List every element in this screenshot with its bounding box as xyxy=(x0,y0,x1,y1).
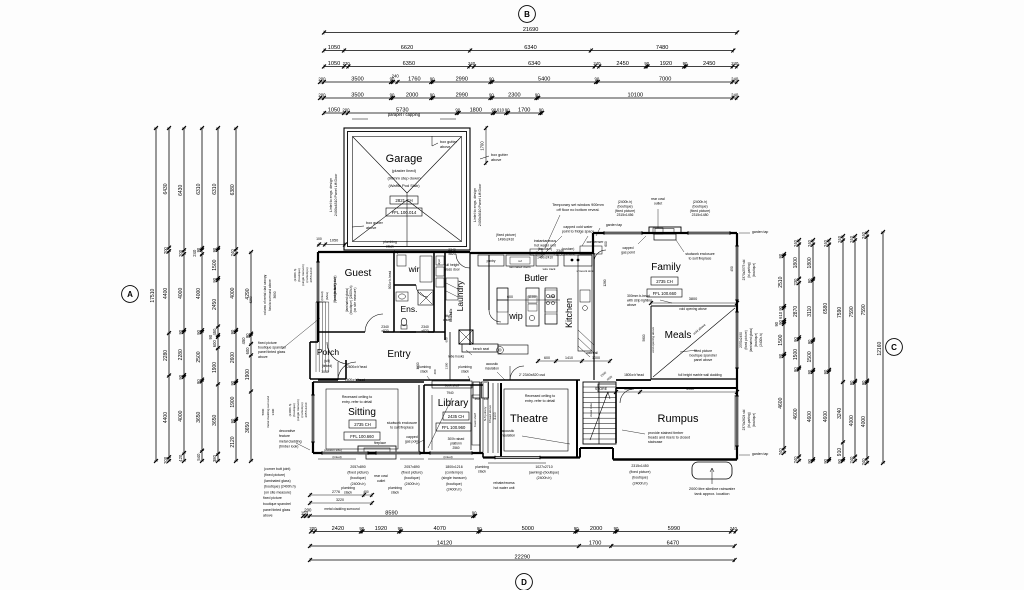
svg-text:1800: 1800 xyxy=(807,257,813,268)
svg-text:Library: Library xyxy=(438,398,469,409)
svg-text:(2400h.h): (2400h.h) xyxy=(693,200,708,204)
svg-text:2600w b'head: 2600w b'head xyxy=(345,378,365,382)
svg-text:(fixed picture): (fixed picture) xyxy=(347,471,368,475)
cooktop circles xyxy=(546,294,549,297)
svg-text:cloak robe: cloak robe xyxy=(589,403,593,417)
svg-text:fixed picture: fixed picture xyxy=(263,496,282,500)
svg-text:4000: 4000 xyxy=(196,288,202,299)
fireplace bump family xyxy=(649,227,681,234)
corridor wall xyxy=(616,379,651,381)
grid marker A xyxy=(122,286,139,303)
sitting left wall xyxy=(312,382,314,453)
garage roof line xyxy=(353,137,462,242)
svg-text:studwork enclosure: studwork enclosure xyxy=(387,421,417,425)
svg-text:1800x1216: 1800x1216 xyxy=(445,465,462,469)
dimension chain right c3 xyxy=(807,238,815,464)
svg-text:4400: 4400 xyxy=(163,288,169,299)
window xyxy=(376,452,420,455)
svg-text:(boutique): (boutique) xyxy=(617,204,632,208)
svg-text:D: D xyxy=(521,578,527,587)
svg-text:2000: 2000 xyxy=(590,526,602,532)
svg-text:2500: 2500 xyxy=(196,351,202,362)
ens vanity xyxy=(396,292,408,301)
svg-text:4600: 4600 xyxy=(823,411,829,422)
svg-text:2280: 2280 xyxy=(163,350,169,361)
svg-text:(bi-parting): (bi-parting) xyxy=(747,262,751,277)
svg-text:x820: x820 xyxy=(421,329,428,333)
svg-text:(boutique): (boutique) xyxy=(561,251,576,255)
sitting fireplace xyxy=(358,446,396,454)
svg-text:(fixed picture): (fixed picture) xyxy=(629,470,650,474)
dimension chain top tier3 xyxy=(322,61,739,69)
svg-text:7480: 7480 xyxy=(656,45,668,51)
svg-text:Theatre: Theatre xyxy=(510,413,548,425)
rumpus door xyxy=(620,389,634,403)
dimension chain right c6 xyxy=(849,234,857,463)
svg-text:boutique spandrel: boutique spandrel xyxy=(258,346,286,350)
svg-text:2000 litre slimline rainwater: 2000 litre slimline rainwater xyxy=(689,487,736,491)
svg-text:x820: x820 xyxy=(448,252,455,256)
svg-text:14120: 14120 xyxy=(437,540,453,546)
svg-text:(2400h.h): (2400h.h) xyxy=(405,482,420,486)
window xyxy=(604,232,642,235)
theatre right wall xyxy=(576,380,578,457)
svg-text:4600: 4600 xyxy=(793,408,799,419)
svg-text:6430: 6430 xyxy=(178,185,184,196)
guest door arc xyxy=(365,314,383,332)
svg-text:garden tap: garden tap xyxy=(606,223,622,227)
svg-text:4000: 4000 xyxy=(178,410,184,421)
svg-text:4400: 4400 xyxy=(163,412,169,423)
svg-text:420: 420 xyxy=(178,454,183,462)
svg-text:column of metal clad canopy: column of metal clad canopy xyxy=(263,274,267,315)
svg-text:2' 2340x820 csd: 2' 2340x820 csd xyxy=(519,373,545,377)
svg-text:6430: 6430 xyxy=(163,183,169,194)
svg-text:6620: 6620 xyxy=(401,45,413,51)
svg-text:5400: 5400 xyxy=(538,76,550,82)
dimension chain bottom tier3 xyxy=(308,540,737,548)
svg-text:Guest: Guest xyxy=(345,268,372,279)
svg-text:to suit fireplace: to suit fireplace xyxy=(390,426,414,430)
svg-text:metal cladding: metal cladding xyxy=(279,439,302,443)
kitchen right bench xyxy=(578,255,592,351)
svg-text:22290: 22290 xyxy=(515,554,531,560)
svg-text:5000: 5000 xyxy=(522,526,534,532)
dimension chain right c2 xyxy=(793,238,801,463)
svg-text:pantry: pantry xyxy=(487,259,496,263)
svg-text:garden tap: garden tap xyxy=(752,230,768,234)
svg-text:Family: Family xyxy=(651,262,680,273)
svg-text:provide stained timber: provide stained timber xyxy=(648,431,684,435)
svg-text:540: 540 xyxy=(196,453,201,461)
svg-text:b'head above: b'head above xyxy=(488,405,492,423)
svg-text:2735 CH: 2735 CH xyxy=(656,279,673,284)
svg-text:2057x890: 2057x890 xyxy=(404,465,419,469)
svg-text:rebate/recess: rebate/recess xyxy=(493,481,514,485)
library right wall xyxy=(479,382,481,453)
svg-text:Recessed ceiling to: Recessed ceiling to xyxy=(525,394,555,398)
svg-text:450: 450 xyxy=(363,490,369,494)
svg-text:(Waffle Pod Slab): (Waffle Pod Slab) xyxy=(388,183,420,188)
svg-text:treads and risers to closed: treads and risers to closed xyxy=(648,436,690,440)
svg-text:(fixed picture): (fixed picture) xyxy=(744,330,748,349)
svg-text:(tinted): (tinted) xyxy=(443,455,452,459)
svg-text:2057x890: 2057x890 xyxy=(350,465,365,469)
svg-text:600: 600 xyxy=(212,340,217,348)
svg-text:(fixed picture): (fixed picture) xyxy=(690,209,711,213)
svg-text:above: above xyxy=(263,514,273,518)
svg-text:2057x1210: 2057x1210 xyxy=(309,267,313,282)
svg-text:fireplace: fireplace xyxy=(374,441,386,445)
svg-text:100: 100 xyxy=(316,237,322,241)
svg-text:5800: 5800 xyxy=(261,408,265,415)
svg-text:void opening above: void opening above xyxy=(651,327,655,353)
theatre room xyxy=(500,383,502,457)
svg-text:450: 450 xyxy=(241,337,246,345)
hall line xyxy=(449,332,451,380)
svg-text:8590: 8590 xyxy=(385,510,397,516)
laundry cabinets xyxy=(446,278,458,300)
svg-text:4290: 4290 xyxy=(249,296,253,304)
grid marker D xyxy=(516,574,533,591)
svg-text:2400x4810 Panel Lift Door: 2400x4810 Panel Lift Door xyxy=(334,173,338,216)
dimension chain top tier2 xyxy=(322,45,735,53)
guest bottom wall xyxy=(318,331,365,333)
svg-text:(boutique): (boutique) xyxy=(632,476,648,480)
svg-text:(contempo): (contempo) xyxy=(445,471,463,475)
svg-text:(fixed picture): (fixed picture) xyxy=(264,473,285,477)
svg-text:2450: 2450 xyxy=(703,61,715,67)
porch front door arc xyxy=(327,342,349,364)
wir robe shelves xyxy=(397,255,406,266)
svg-text:(tinted): (tinted) xyxy=(320,291,324,300)
svg-text:7590: 7590 xyxy=(861,304,867,315)
svg-text:point to fridge space: point to fridge space xyxy=(562,230,594,234)
svg-text:Butler: Butler xyxy=(524,273,548,283)
svg-text:450: 450 xyxy=(212,328,217,336)
svg-text:(2400h.h): (2400h.h) xyxy=(537,476,552,480)
svg-text:4600: 4600 xyxy=(778,397,784,408)
svg-text:240: 240 xyxy=(392,73,400,78)
svg-text:2370x2575 sld: 2370x2575 sld xyxy=(742,259,746,280)
svg-text:(awning)-(boutique): (awning)-(boutique) xyxy=(529,471,559,475)
hall/meals wall xyxy=(651,378,737,380)
svg-text:1800w b'head: 1800w b'head xyxy=(624,373,644,377)
svg-text:2315x1480: 2315x1480 xyxy=(692,213,709,217)
svg-text:300mm b-head: 300mm b-head xyxy=(627,294,650,298)
dimension chain bottom 22290 xyxy=(308,554,737,562)
svg-text:7000: 7000 xyxy=(659,76,671,82)
svg-text:Meals: Meals xyxy=(665,330,692,341)
theatre doors xyxy=(510,366,524,380)
svg-text:(laminated glass): (laminated glass) xyxy=(749,328,753,352)
svg-text:1027x2710: 1027x2710 xyxy=(535,465,552,469)
sitting right wall xyxy=(423,385,425,453)
entry hall bottom wall xyxy=(318,379,338,381)
svg-text:outlet: outlet xyxy=(377,479,385,483)
dimension chain right c5 xyxy=(837,234,845,464)
svg-text:decorative: decorative xyxy=(279,429,295,433)
dim 3800 xyxy=(651,302,737,304)
svg-text:3800: 3800 xyxy=(689,297,697,301)
garage roof hip lines xyxy=(353,137,408,194)
svg-text:2735 CH: 2735 CH xyxy=(354,422,371,427)
svg-text:(boutique): (boutique) xyxy=(404,476,420,480)
svg-text:wip: wip xyxy=(508,311,523,321)
svg-text:stack: stack xyxy=(391,490,399,494)
dim 1700 right of garage xyxy=(485,128,487,163)
svg-text:(timber look): (timber look) xyxy=(279,445,298,449)
dimension chain top tier4 xyxy=(318,73,739,84)
dimension chain left c5 xyxy=(208,126,220,463)
svg-text:fixed picture: fixed picture xyxy=(694,349,712,353)
svg-text:(fixed picture): (fixed picture) xyxy=(401,471,422,475)
svg-text:(fixed picture): (fixed picture) xyxy=(615,209,636,213)
svg-text:Rumpus: Rumpus xyxy=(658,413,699,425)
svg-text:(boutique): (boutique) xyxy=(752,413,756,427)
svg-text:FFL 100.960: FFL 100.960 xyxy=(442,425,466,430)
svg-text:plumbing: plumbing xyxy=(458,365,472,369)
svg-text:(laminated glass): (laminated glass) xyxy=(264,479,291,483)
svg-text:2000: 2000 xyxy=(406,92,418,98)
svg-text:condenser: condenser xyxy=(587,240,605,244)
svg-text:3500: 3500 xyxy=(351,76,363,82)
svg-text:6580: 6580 xyxy=(823,303,829,314)
svg-text:90: 90 xyxy=(208,334,213,339)
svg-text:B: B xyxy=(524,10,530,19)
sitting recess ceiling rect xyxy=(326,389,398,449)
svg-text:full height: full height xyxy=(445,263,460,267)
svg-text:3100: 3100 xyxy=(493,412,497,420)
svg-text:STORE: STORE xyxy=(595,387,608,391)
ens shower corner xyxy=(420,292,432,304)
dimension chain left c4 xyxy=(192,126,204,463)
rumpus bottom wall xyxy=(613,458,737,460)
svg-text:3220: 3220 xyxy=(336,498,344,502)
svg-text:17510: 17510 xyxy=(150,289,156,303)
svg-text:2300: 2300 xyxy=(508,92,520,98)
svg-text:910: 910 xyxy=(837,448,843,457)
svg-text:4000: 4000 xyxy=(230,287,236,298)
rumpus top wall xyxy=(616,387,737,389)
svg-text:200: 200 xyxy=(304,507,312,512)
svg-text:2821 CH: 2821 CH xyxy=(395,198,412,203)
svg-text:(boutique) (2400h.h): (boutique) (2400h.h) xyxy=(264,485,296,489)
svg-text:3650: 3650 xyxy=(212,414,218,425)
small bottom dims xyxy=(310,494,372,496)
dimension chain left c7 xyxy=(241,250,253,463)
sill lines bottom xyxy=(318,458,356,460)
svg-text:690: 690 xyxy=(549,295,555,299)
hall walls around entry xyxy=(394,331,416,333)
svg-text:610: 610 xyxy=(497,107,505,112)
svg-text:4600: 4600 xyxy=(807,411,813,422)
pantry cabinets top row xyxy=(478,255,504,266)
svg-text:acoustic: acoustic xyxy=(486,362,498,366)
kitchen dim bottom xyxy=(538,360,610,362)
laundry chute box xyxy=(459,330,473,344)
family/meals void wall xyxy=(651,305,737,307)
dimension chain top tier5 xyxy=(318,92,739,100)
svg-text:2560: 2560 xyxy=(452,446,459,450)
dimension chain left c2 xyxy=(163,126,171,464)
svg-text:240: 240 xyxy=(192,249,197,257)
svg-text:book shelf: book shelf xyxy=(473,413,477,427)
svg-text:10100: 10100 xyxy=(628,92,644,98)
svg-text:above: above xyxy=(491,158,501,162)
kitchen bench diagonals xyxy=(578,330,594,345)
svg-text:(on site measure): (on site measure) xyxy=(353,288,357,313)
svg-text:panel above: panel above xyxy=(694,358,713,362)
ens door arc xyxy=(416,285,428,297)
window xyxy=(736,312,739,368)
svg-text:FFL 100.014: FFL 100.014 xyxy=(392,210,417,215)
wir room xyxy=(433,252,435,285)
svg-text:4000: 4000 xyxy=(861,416,867,427)
svg-text:hot water unit: hot water unit xyxy=(493,486,514,490)
svg-text:2370x2450: 2370x2450 xyxy=(739,332,743,348)
svg-text:6310: 6310 xyxy=(196,183,202,194)
svg-text:1050: 1050 xyxy=(328,107,340,113)
svg-text:1900: 1900 xyxy=(230,396,236,407)
svg-text:capped: capped xyxy=(406,435,418,439)
svg-text:90: 90 xyxy=(774,321,779,326)
svg-text:metal cladding surround: metal cladding surround xyxy=(324,507,359,511)
svg-text:bench seat: bench seat xyxy=(473,347,489,351)
svg-text:glass door: glass door xyxy=(444,268,461,272)
svg-text:1760: 1760 xyxy=(408,76,420,82)
svg-text:Laundry: Laundry xyxy=(455,280,465,311)
svg-text:1800: 1800 xyxy=(793,257,799,268)
svg-text:7940: 7940 xyxy=(446,391,453,395)
svg-text:6470: 6470 xyxy=(667,540,679,546)
svg-text:1900: 1900 xyxy=(245,369,251,380)
svg-text:(2400h.h): (2400h.h) xyxy=(447,487,462,491)
svg-text:laminated doors: laminated doors xyxy=(509,265,531,269)
svg-text:entry. refer to detail: entry. refer to detail xyxy=(525,399,555,403)
svg-text:1500: 1500 xyxy=(807,351,813,362)
svg-text:2315x1450: 2315x1450 xyxy=(631,464,648,468)
svg-text:(2400h.h): (2400h.h) xyxy=(633,481,648,485)
meals diagonal xyxy=(653,308,735,377)
svg-text:insulation: insulation xyxy=(501,434,515,438)
right outer wall xyxy=(736,233,738,460)
svg-text:2435 CH: 2435 CH xyxy=(448,414,465,419)
svg-text:fascia surround above: fascia surround above xyxy=(268,279,272,311)
svg-text:rear cowl: rear cowl xyxy=(374,474,388,478)
svg-text:stack: stack xyxy=(420,370,428,374)
svg-text:Lintel to engs. design: Lintel to engs. design xyxy=(329,178,333,212)
svg-text:(boutique): (boutique) xyxy=(752,263,756,277)
svg-text:1050: 1050 xyxy=(328,45,340,51)
svg-text:600: 600 xyxy=(507,295,513,299)
svg-text:3500: 3500 xyxy=(351,92,363,98)
garage outer parapet wall xyxy=(344,128,470,250)
grid marker B xyxy=(519,6,536,23)
svg-text:3650: 3650 xyxy=(245,422,251,433)
svg-text:610: 610 xyxy=(778,311,783,319)
svg-text:2450: 2450 xyxy=(212,299,218,310)
svg-text:1920: 1920 xyxy=(660,61,672,67)
svg-text:1100: 1100 xyxy=(528,295,536,299)
laundry room xyxy=(444,253,446,340)
svg-text:FFL 100.660: FFL 100.660 xyxy=(653,291,677,296)
stair arrow xyxy=(590,392,608,440)
svg-text:4150: 4150 xyxy=(686,387,694,391)
svg-text:1920: 1920 xyxy=(375,526,387,532)
svg-text:1490x2410: 1490x2410 xyxy=(498,237,514,241)
svg-text:panel tinted glass: panel tinted glass xyxy=(263,508,290,512)
main house outer walls xyxy=(318,251,470,253)
garage roof ridge xyxy=(406,193,408,246)
svg-text:3650: 3650 xyxy=(196,411,202,422)
svg-text:(boutique): (boutique) xyxy=(446,482,462,486)
svg-text:6340: 6340 xyxy=(528,61,540,67)
svg-text:5800: 5800 xyxy=(642,334,646,341)
dimension chain left c6 xyxy=(230,126,238,463)
svg-text:12160: 12160 xyxy=(877,342,883,356)
svg-text:boutique spandrel: boutique spandrel xyxy=(263,502,291,506)
svg-text:900w b-head: 900w b-head xyxy=(388,271,392,290)
svg-text:chute: chute xyxy=(443,318,451,322)
svg-text:(b/les): (b/les) xyxy=(325,292,329,300)
svg-text:x820: x820 xyxy=(381,329,388,333)
svg-text:1500: 1500 xyxy=(778,334,784,345)
svg-text:void opening above: void opening above xyxy=(679,307,707,311)
svg-text:Lintel to engs. design: Lintel to engs. design xyxy=(473,188,477,222)
kitchen right wall xyxy=(593,253,595,380)
svg-text:2315x1456: 2315x1456 xyxy=(617,213,634,217)
svg-text:plumbing: plumbing xyxy=(388,486,402,490)
svg-text:gas point: gas point xyxy=(621,250,635,254)
grid marker C xyxy=(886,339,903,356)
svg-text:(custom size): (custom size) xyxy=(324,448,342,452)
svg-text:6380: 6380 xyxy=(230,184,236,195)
svg-text:450: 450 xyxy=(730,266,734,272)
svg-text:waterfall: waterfall xyxy=(586,351,598,355)
svg-text:2990: 2990 xyxy=(456,76,468,82)
svg-text:(corner butt joint): (corner butt joint) xyxy=(264,467,290,471)
svg-text:2370x2624 sld: 2370x2624 sld xyxy=(742,409,746,430)
svg-text:tank approx. location: tank approx. location xyxy=(694,492,729,496)
svg-text:Temporary set window 900mm: Temporary set window 900mm xyxy=(552,203,604,207)
svg-text:300h raised: 300h raised xyxy=(448,437,465,441)
window xyxy=(688,232,730,235)
svg-text:wire track: wire track xyxy=(543,267,556,271)
dimension chain bottom tier2 xyxy=(309,526,738,534)
svg-text:entry. refer to detail: entry. refer to detail xyxy=(342,400,372,404)
svg-text:2600: 2600 xyxy=(230,352,236,363)
svg-text:(tinted): (tinted) xyxy=(332,455,341,459)
svg-text:box gutter: box gutter xyxy=(440,140,458,144)
svg-text:Sitting: Sitting xyxy=(348,407,376,418)
svg-text:panel tinted glass: panel tinted glass xyxy=(258,350,285,354)
svg-text:2120: 2120 xyxy=(230,436,236,447)
window xyxy=(322,452,368,455)
porch walls xyxy=(310,341,318,343)
svg-text:off floor no bottom reveal.: off floor no bottom reveal. xyxy=(557,208,600,212)
garage FFL box xyxy=(386,208,422,216)
svg-text:u'mount sink: u'mount sink xyxy=(577,269,594,273)
svg-text:dryer: dryer xyxy=(437,259,441,265)
svg-text:with strip lighting: with strip lighting xyxy=(627,298,652,302)
svg-text:1800: 1800 xyxy=(470,107,482,113)
svg-text:1000: 1000 xyxy=(592,356,600,360)
svg-text:(on site measure): (on site measure) xyxy=(264,491,291,495)
leader line nest xyxy=(315,302,317,372)
svg-text:7590: 7590 xyxy=(849,306,855,317)
svg-text:600: 600 xyxy=(604,241,608,247)
